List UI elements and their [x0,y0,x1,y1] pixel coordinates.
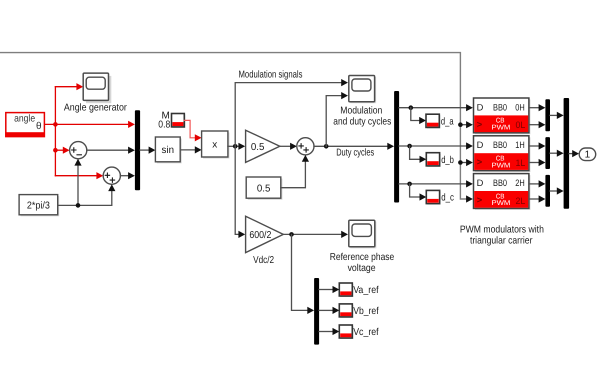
arrow into gain 600/2 [238,231,245,238]
mux bar A [545,99,550,131]
svg-text:1H: 1H [515,140,525,150]
svg-text:Vc_ref: Vc_ref [353,327,379,338]
arrow into gain 0.5 [238,143,245,150]
junction on trigger line at PWM1 [458,122,463,127]
svg-text:0.5: 0.5 [251,142,265,153]
svg-text:Duty cycles: Duty cycles [336,147,374,158]
block: product x [202,131,230,159]
junction red at theta line [53,122,58,127]
arrow up into sum1 bottom [74,159,81,166]
wire: sum2 output to mux1 [120,175,128,177]
sum S2 (+ +) [103,167,120,184]
wire: product output [228,145,238,147]
svg-text:2H: 2H [515,178,525,188]
arrow into muxC 2L [539,195,546,202]
wire: 600/2 output to scope3 [283,233,341,235]
arrow into PWM2 trigger [466,159,473,166]
wire: red branch to sum2 [55,175,96,177]
block: display Va_ref [339,283,378,297]
arrow into PWM3 D [466,180,473,187]
svg-text:x: x [212,140,217,151]
junction row3 [407,182,412,187]
wire: sin to product [180,149,195,151]
wire: branch to d_b [410,146,420,159]
svg-text:PWM modulators with: PWM modulators with [460,224,544,235]
svg-text:θ: θ [36,121,42,132]
arrow into sum3 [290,143,297,150]
arrow into PWM2 D [466,142,473,149]
svg-text:triangular carrier: triangular carrier [470,236,533,247]
junction red at sum1 branch [53,148,58,153]
wire: theta output (red) to mux [45,123,129,125]
svg-text:D: D [477,140,484,150]
wire: trigger stub to PWM2 [460,162,466,164]
arrow into outport 1 [572,150,579,157]
svg-text:BB0: BB0 [493,140,507,150]
arrow into Vc_ref [333,328,340,335]
arrow into final mux row1 [557,112,564,119]
arrow into sin [149,147,156,154]
svg-text:1L: 1L [516,158,526,168]
svg-text:PWM: PWM [492,125,511,132]
arrow into scope2 input2 [341,92,348,99]
svg-text:2*pi/3: 2*pi/3 [27,200,50,211]
svg-text:angle: angle [14,113,35,124]
sum S1 (+ -) [70,142,87,159]
arrow into final mux row2 [557,150,564,157]
svg-text:1: 1 [585,150,591,161]
wire: muxC to final mux [550,190,557,192]
wire: trigger stub to PWM1 [460,124,466,126]
wire: red branch vertical [54,87,56,176]
arrow into bar2 [387,143,394,150]
arrow into PWM3 trigger [466,195,473,202]
svg-text:voltage: voltage [348,263,376,274]
wire: demux3 to Va_ref [319,289,333,291]
arrow into muxB 1L [539,159,546,166]
arrow red into scope1 [76,83,83,90]
final mux bar [564,98,570,209]
junction after 600/2 [289,232,294,237]
wire: M to product (red) [184,120,195,137]
block: PWM modulator 2 (CB PWM BB0 1H/1L) [474,136,531,172]
arrow red into sum2 [96,172,103,179]
arrow into product from sin [195,146,202,153]
block: constant 0.5 [246,177,282,200]
mux1 bar [135,110,140,190]
svg-text:and duty cycles: and duty cycles [333,117,391,128]
svg-text:0.5: 0.5 [257,183,271,194]
outport 1 [579,148,596,161]
arrow into PWM1 D [466,104,473,111]
svg-text:d_c: d_c [441,193,454,204]
svg-text:Vb_ref: Vb_ref [353,306,379,317]
block: display d_b [426,153,454,167]
junction on trigger line at PWM2 [458,160,463,165]
arrow into scope3 [341,231,348,238]
arrow into muxA 0H [539,104,546,111]
wire: duty cycles up to scope2 input2 [326,96,341,147]
block: display d_a [426,114,454,128]
block: display Vc_ref [339,325,378,339]
wire: bar2 row1 to PWM1 D [399,107,466,109]
wire: down to Vdc/2 gain [235,146,239,234]
arrow into d_a [419,117,426,124]
svg-text:D: D [477,178,484,188]
svg-text:PWM: PWM [492,162,511,169]
wire: branch to d_c [410,184,420,197]
arrow red into mux1 (theta) [128,121,135,128]
arrow into muxB 1H [539,142,546,149]
block: constant M = 0.8 (display) [158,111,185,131]
svg-text:d_b: d_b [441,155,454,166]
svg-text:2L: 2L [516,196,526,206]
junction duty cycles [324,144,329,149]
wire: PWM1 0L out [529,124,539,126]
wire: demux3 to Vb_ref [319,309,333,311]
wire: sum3 output to demux bar2 [314,145,388,147]
svg-text:BB0: BB0 [493,102,507,112]
wire: PWM1 0H out [529,107,539,109]
arrow red into product [195,134,202,141]
arrow into mux1 from sum2 [128,172,135,179]
mux bar C [545,175,550,207]
svg-text:Va_ref: Va_ref [353,285,379,296]
wire: red branch to Angle generator scope [55,86,76,88]
svg-text:Reference phase: Reference phase [330,252,395,263]
wire: final mux to outport 1 [569,153,572,155]
arrow into muxA 0L [539,121,546,128]
svg-text:0L: 0L [516,120,526,130]
svg-text:0H: 0H [515,102,525,112]
arrow up into sum3 bottom [302,155,309,162]
arrow red into sum1 [63,147,70,154]
scope: Reference phase voltage [330,220,395,274]
svg-text:BB0: BB0 [493,178,507,188]
demux bar2 [394,91,399,203]
arrow into demux3 [307,307,314,314]
arrow into d_b [420,156,427,163]
svg-text:Modulation signals: Modulation signals [239,69,303,80]
arrow into final mux row3 [557,187,564,194]
wire: PWM2 1H out [529,145,539,147]
wire: bar2 row2 to PWM2 D [399,145,466,147]
svg-text:sin: sin [162,145,175,156]
block: PWM modulator 3 (CB PWM BB0 2H/2L) [474,174,531,210]
svg-text:Angle generator: Angle generator [64,102,128,113]
junction row1 [409,105,414,110]
wire: constant 0.5 to sum3 bottom [281,162,306,188]
wire: modulation signals up and right to scope2 [235,83,341,147]
wire: trigger feedback line from top-left to PWM3 trigger [0,53,466,199]
arrow into PWM1 trigger [466,121,473,128]
wire: sum1 output to mux1 [87,149,129,151]
block: display Vb_ref [339,304,378,318]
svg-text:600/2: 600/2 [249,230,271,241]
block: sin [155,137,181,163]
wire: muxA to final mux [550,114,557,116]
block: display d_c [426,190,454,204]
wire: 2*pi/3 output with branches [58,166,78,206]
svg-text:Vdc/2: Vdc/2 [253,255,274,266]
sum S3 (+ +) [297,138,314,155]
block: constant 2*pi/3 [19,195,59,217]
arrow into Va_ref [333,286,340,293]
svg-text:PWM: PWM [492,200,511,207]
junction at 2*pi/3 branch [76,203,81,208]
wire: bar2 row3 to PWM3 D [399,183,466,185]
wire: PWM2 1L out [529,162,539,164]
scope: Modulation and duty cycles [333,76,391,128]
wire: reference down to demux3 [292,234,308,310]
scope: Angle generator [64,73,128,113]
svg-text:Modulation: Modulation [340,106,382,117]
demux3 bar [314,278,319,345]
junction at product output [233,144,238,149]
svg-text:d_a: d_a [441,116,454,127]
gain: 0.5 triangle [246,130,280,162]
mux bar B [545,137,550,169]
arrow into d_c [420,193,427,200]
junction row2 [407,144,412,149]
wire: gain to sum3 [280,145,290,147]
wire: PWM3 2H out [529,183,539,185]
wire: branch to d_a [411,108,420,121]
svg-text:>: > [477,119,483,129]
block: angle source (red subsystem) [5,113,45,137]
arrow into mux1 from sum1 [128,147,135,154]
arrow into scope2 input1 [341,79,348,86]
wire: red branch to sum1 [55,149,63,151]
svg-text:>: > [477,195,483,205]
gain: 600/2 triangle [246,216,284,266]
svg-text:>: > [477,157,483,167]
arrow into Vb_ref [333,307,340,314]
svg-text:0.8: 0.8 [158,119,170,130]
arrow up into sum2 bottom [108,184,115,191]
svg-text:D: D [477,102,484,112]
wire: mux1 to sin [140,149,149,151]
wire: demux3 to Vc_ref [319,331,333,333]
arrow into muxC 2H [539,180,546,187]
wire: muxB to final mux [550,152,557,154]
wire: PWM3 2L out [529,198,539,200]
block: PWM modulator 1 (CB PWM BB0 0H/0L) [474,98,531,134]
